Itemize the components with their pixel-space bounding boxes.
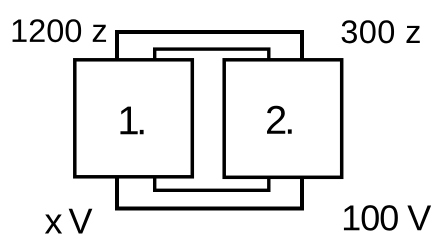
transformer core outer outline [117,32,302,209]
transformer core inner window outline [155,49,269,190]
label 300 z (secondary turns) [342,20,420,43]
label 1200 z (primary turns) [13,19,106,42]
label 1. (winding 1 number) [120,107,143,135]
winding 2 (secondary coil box) [224,60,342,178]
winding 1 (primary coil box) [75,60,193,177]
label 100 V (secondary voltage) [344,205,431,230]
label 2. (winding 2 number) [267,106,292,134]
label x V (primary voltage) [45,209,92,234]
